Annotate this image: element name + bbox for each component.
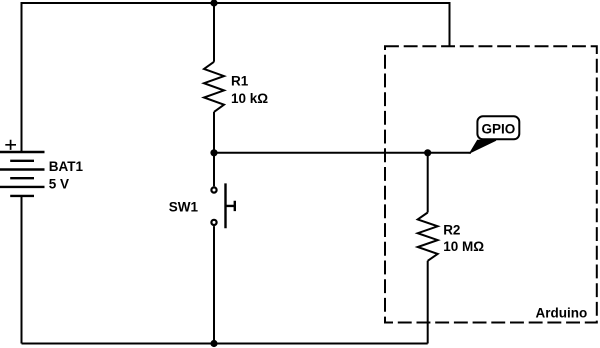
wire mid horizontal to GPIO [214,152,471,154]
svg-text:R1: R1 [231,74,249,89]
GPIO flag pointer [470,140,496,153]
battery BAT1 plate short 2 [10,177,34,179]
switch SW1 actuator [226,183,235,228]
switch SW1 contact top [211,187,216,192]
svg-text:GPIO: GPIO [482,121,516,136]
battery BAT1 plate short 3 [10,195,34,197]
svg-text:5 V: 5 V [49,176,69,191]
resistor R2 [418,213,438,261]
svg-text:SW1: SW1 [169,200,199,215]
svg-text:R2: R2 [443,223,460,238]
svg-text:BAT1: BAT1 [49,159,84,174]
GPIO flag box [477,116,519,139]
battery BAT1 plate long 2 [0,168,45,170]
resistor R1 [204,62,224,112]
battery BAT1 plate long 1 [0,151,45,153]
battery BAT1 plate short 1 [10,160,34,162]
svg-text:Arduino: Arduino [536,305,588,320]
battery BAT1 plus sign [5,140,16,150]
battery BAT1 plate long 3 [0,186,45,188]
node junction mid [210,149,217,156]
wire R2 top lead [427,153,429,213]
wire R1 top lead [213,3,215,62]
node junction bottom [210,340,217,347]
node junction R2 top [424,149,431,156]
wire bottom rail [22,343,428,345]
wire R2 bottom lead [427,261,429,344]
svg-text:10 MΩ: 10 MΩ [443,239,484,254]
wire switch bottom lead [213,226,215,343]
node junction top R1 [210,0,217,7]
wire top rail [22,3,450,152]
Arduino dashed box [385,46,597,322]
svg-text:10 kΩ: 10 kΩ [231,91,268,106]
switch SW1 contact bottom [211,220,216,225]
wire battery bottom lead [21,196,23,344]
wire R1 bottom lead [213,112,215,153]
wire switch top lead [213,153,215,187]
